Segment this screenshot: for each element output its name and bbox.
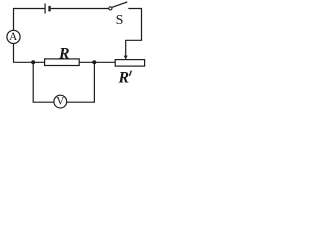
svg-text:S: S — [116, 13, 124, 28]
svg-text:R: R — [118, 70, 130, 87]
svg-text:A: A — [9, 31, 17, 43]
svg-text:R: R — [58, 46, 70, 63]
svg-text:V: V — [56, 96, 64, 108]
